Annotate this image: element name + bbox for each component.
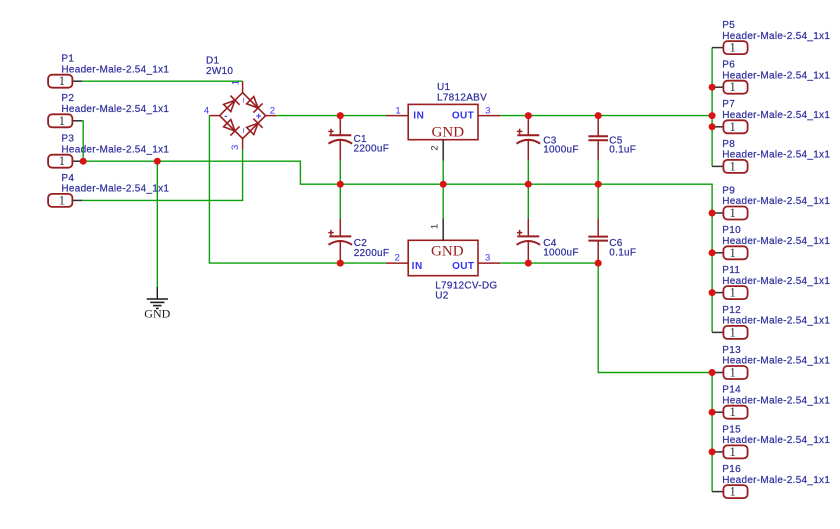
svg-text:1: 1 <box>230 80 241 85</box>
P13 body <box>723 366 747 379</box>
capacitor C1 2200uF <box>328 116 389 161</box>
svg-text:P7: P7 <box>722 99 735 110</box>
svg-text:1: 1 <box>395 106 400 117</box>
C2 bottom lead <box>339 241 341 263</box>
svg-text:IN: IN <box>412 261 423 272</box>
D1 pin 1 stub (top) <box>242 81 244 92</box>
svg-text:3: 3 <box>485 253 490 264</box>
header P9 Header-Male-2.54_1x1 <box>712 185 830 220</box>
svg-text:P10: P10 <box>722 225 741 236</box>
svg-text:P14: P14 <box>722 385 741 396</box>
svg-text:1: 1 <box>729 206 735 220</box>
D1 diode top-left <box>224 96 240 112</box>
junction P14 pin <box>709 409 716 416</box>
P6 pin stub <box>712 86 723 88</box>
junction P6 pin <box>709 84 716 91</box>
U2 pin 2 stub <box>386 262 408 264</box>
header P6 Header-Male-2.54_1x1 <box>712 60 830 95</box>
svg-text:Header-Male-2.54_1x1: Header-Male-2.54_1x1 <box>61 104 169 115</box>
P9 pin stub <box>712 212 723 214</box>
svg-text:P9: P9 <box>722 185 735 196</box>
svg-text:1: 1 <box>729 485 735 499</box>
regulator U2 L7912CV-DG <box>386 219 500 302</box>
ground stub <box>156 287 158 299</box>
C6 plate 1 <box>588 236 608 238</box>
C2 plus sign <box>328 230 333 235</box>
svg-text:U2: U2 <box>435 291 449 302</box>
D1 pin 4 stub (left) <box>209 115 219 117</box>
header P1 Header-Male-2.54_1x1 <box>48 54 169 89</box>
svg-text:L7812ABV: L7812ABV <box>437 92 487 103</box>
wire U1 pin2 to GND rail to U2 pin1 <box>442 161 444 219</box>
C6 bottom lead <box>597 241 599 264</box>
svg-text:1000uF: 1000uF <box>543 145 579 156</box>
D1 diode bottom-left <box>224 120 240 136</box>
svg-text:1: 1 <box>729 80 735 94</box>
svg-text:3: 3 <box>230 145 241 150</box>
P5 pin stub <box>712 47 723 49</box>
P3 pin stub <box>72 160 80 162</box>
C6 plate 2 <box>588 240 608 242</box>
P14 body <box>723 406 747 419</box>
svg-text:P6: P6 <box>722 60 735 71</box>
junction C3 top on +12V rail <box>525 112 532 119</box>
svg-text:1: 1 <box>729 120 735 134</box>
wire P4 to D1 pin3 <box>82 150 243 201</box>
C3 bottom lead <box>527 140 529 160</box>
svg-text:P1: P1 <box>61 54 74 65</box>
P13 pin stub <box>712 372 723 374</box>
P3 body <box>48 155 72 168</box>
header P12 Header-Male-2.54_1x1 <box>712 305 830 340</box>
wire -12V output rail U2 OUT to P13-P16 bus <box>500 263 712 372</box>
wire +12V rail U1 OUT to P5-P8 bus <box>500 115 712 117</box>
junction P2/P3 net <box>80 158 87 165</box>
P1 body <box>48 75 72 88</box>
junction C2 bottom on -12V in rail <box>337 260 344 267</box>
P1 pin stub <box>72 80 82 82</box>
svg-text:+: + <box>256 111 262 122</box>
svg-text:Header-Male-2.54_1x1: Header-Male-2.54_1x1 <box>722 150 830 161</box>
svg-text:Header-Male-2.54_1x1: Header-Male-2.54_1x1 <box>722 70 830 81</box>
U1 body <box>408 104 478 139</box>
P8 pin stub <box>712 165 723 167</box>
svg-text:Header-Male-2.54_1x1: Header-Male-2.54_1x1 <box>722 395 830 406</box>
U1 pin 3 stub <box>478 115 500 117</box>
svg-text:1: 1 <box>59 114 65 128</box>
C4 bottom lead <box>527 241 529 263</box>
GROUND SYMBOL <box>147 287 168 308</box>
ground bar 4 <box>156 307 159 309</box>
U1 pin 1 stub <box>386 115 408 117</box>
P7 pin stub <box>712 126 723 128</box>
junction P7 pin <box>709 123 716 130</box>
D1 diamond outline <box>220 93 266 139</box>
header P4 Header-Male-2.54_1x1 <box>48 173 169 208</box>
svg-text:0.1uF: 0.1uF <box>609 248 636 259</box>
junction C6 bottom on -12V out rail <box>595 260 602 267</box>
D1 pin 2 stub (right) <box>266 115 277 117</box>
header P11 Header-Male-2.54_1x1 <box>712 265 830 300</box>
svg-text:Header-Male-2.54_1x1: Header-Male-2.54_1x1 <box>722 475 830 486</box>
C1 bottom lead <box>339 140 341 160</box>
C1 curved plate <box>329 140 353 144</box>
svg-text:P11: P11 <box>722 265 740 276</box>
C2 flat plate <box>329 235 351 237</box>
P5 body <box>723 41 747 54</box>
header P16 Header-Male-2.54_1x1 <box>712 464 830 499</box>
svg-text:~: ~ <box>238 97 249 103</box>
svg-text:P4: P4 <box>61 173 74 184</box>
U2 pin 3 stub <box>478 262 500 264</box>
junction +12V rail into P5-P8 bus <box>709 112 716 119</box>
capacitor C4 1000uF <box>517 218 579 263</box>
svg-text:1: 1 <box>729 366 735 380</box>
D1 diode bottom-right <box>247 119 263 135</box>
wire C5 bottom to GND rail <box>597 160 599 184</box>
P7 body <box>723 120 747 133</box>
svg-text:1: 1 <box>429 224 440 229</box>
wire C1 bottom to GND rail <box>339 160 341 184</box>
capacitor C2 2200uF <box>328 218 389 263</box>
svg-text:P16: P16 <box>722 464 741 475</box>
svg-text:1: 1 <box>729 286 735 300</box>
svg-text:2: 2 <box>395 253 400 264</box>
P9 body <box>723 207 747 220</box>
ground bar 2 <box>150 301 164 303</box>
svg-text:Header-Male-2.54_1x1: Header-Male-2.54_1x1 <box>722 110 830 121</box>
C1 top lead <box>339 116 341 136</box>
svg-text:GND: GND <box>432 124 465 140</box>
svg-text:-: - <box>224 111 227 122</box>
header P8 Header-Male-2.54_1x1 <box>712 139 830 174</box>
P12 pin stub <box>712 331 723 333</box>
svg-text:1: 1 <box>729 405 735 419</box>
P12 body <box>723 326 747 339</box>
svg-text:1: 1 <box>729 246 735 260</box>
P4 pin stub <box>72 199 82 201</box>
wire C3 bottom to GND rail <box>527 160 529 184</box>
svg-text:Header-Male-2.54_1x1: Header-Male-2.54_1x1 <box>722 236 830 247</box>
P11 body <box>723 286 747 299</box>
C4 top lead <box>527 218 529 236</box>
junction C3/C4 midpoint on GND rail <box>525 181 532 188</box>
C4 curved plate <box>517 241 541 245</box>
svg-text:1: 1 <box>59 74 65 88</box>
wire P1 to D1 pin1 <box>82 80 243 82</box>
C1 plus sign <box>328 129 333 134</box>
P2 pin stub <box>72 120 82 122</box>
P10 pin stub <box>712 252 723 254</box>
junction U1 pin2 on GND rail <box>440 181 447 188</box>
capacitor C6 0.1uF <box>588 218 636 263</box>
C5 bottom lead <box>597 140 599 160</box>
C3 top lead <box>527 116 529 136</box>
P6 body <box>723 81 747 94</box>
svg-text:P8: P8 <box>722 139 735 150</box>
svg-text:1000uF: 1000uF <box>543 248 579 259</box>
svg-text:~: ~ <box>238 127 249 133</box>
svg-text:2200uF: 2200uF <box>354 143 390 154</box>
P15 pin stub <box>712 451 723 453</box>
C4 flat plate <box>517 235 539 237</box>
svg-text:P15: P15 <box>722 424 741 435</box>
P16 body <box>723 485 747 498</box>
svg-text:2200uF: 2200uF <box>354 248 390 259</box>
capacitor C5 0.1uF <box>588 116 636 161</box>
svg-text:4: 4 <box>204 106 209 117</box>
P11 pin stub <box>712 292 723 294</box>
D1 diode top-right <box>247 97 263 113</box>
svg-text:3: 3 <box>485 106 490 117</box>
junction P11 pin <box>709 289 716 296</box>
svg-text:1: 1 <box>729 159 735 173</box>
P8 body <box>723 160 747 173</box>
junction P13 pin <box>709 369 716 376</box>
svg-text:Header-Male-2.54_1x1: Header-Male-2.54_1x1 <box>722 435 830 446</box>
U2 body <box>408 240 478 275</box>
C6 top lead <box>597 218 599 236</box>
svg-text:Header-Male-2.54_1x1: Header-Male-2.54_1x1 <box>722 356 830 367</box>
svg-text:OUT: OUT <box>452 110 474 121</box>
svg-text:Header-Male-2.54_1x1: Header-Male-2.54_1x1 <box>722 31 830 42</box>
header P7 Header-Male-2.54_1x1 <box>712 99 830 134</box>
svg-text:P5: P5 <box>722 20 735 31</box>
svg-text:P12: P12 <box>722 305 741 316</box>
C3 flat plate <box>517 134 539 136</box>
header P2 Header-Male-2.54_1x1 <box>48 93 169 128</box>
C4 plus sign <box>517 230 522 235</box>
U1 pin 2 stub <box>442 140 444 161</box>
D1 pin 3 stub (bottom) <box>242 139 244 150</box>
wire GND rail to C4 top <box>527 184 529 218</box>
svg-text:2: 2 <box>429 145 440 150</box>
ground bar 3 <box>153 305 161 307</box>
svg-text:P2: P2 <box>61 93 74 104</box>
wire P2 down to P3 net <box>82 121 83 161</box>
C5 plate 1 <box>588 135 608 137</box>
C1 flat plate <box>329 134 351 136</box>
svg-text:P13: P13 <box>722 345 741 356</box>
C3 curved plate <box>517 140 541 144</box>
svg-text:Header-Male-2.54_1x1: Header-Male-2.54_1x1 <box>61 64 169 75</box>
wire GND rail from P3 to right bus <box>79 161 712 332</box>
junction C1 top on +12V in rail <box>337 112 344 119</box>
svg-text:GND: GND <box>431 244 464 260</box>
P15 body <box>723 445 747 458</box>
C2 top lead <box>339 218 341 236</box>
C3 plus sign <box>517 129 522 134</box>
svg-text:P3: P3 <box>61 134 74 145</box>
svg-text:1: 1 <box>729 445 735 459</box>
wire P13-P16 vertical bus <box>711 373 713 492</box>
svg-text:1: 1 <box>729 325 735 339</box>
C2 curved plate <box>329 241 353 245</box>
C5 plate 2 <box>588 139 608 141</box>
wire P5-P8 vertical bus <box>711 48 713 167</box>
header P3 Header-Male-2.54_1x1 <box>48 134 169 169</box>
junction C4 bottom on -12V out rail <box>525 260 532 267</box>
wire GND tap down to ground symbol <box>156 161 158 287</box>
svg-text:2: 2 <box>270 106 275 117</box>
header P15 Header-Male-2.54_1x1 <box>712 424 830 459</box>
junction P15 pin <box>709 448 716 455</box>
svg-text:Header-Male-2.54_1x1: Header-Male-2.54_1x1 <box>722 276 830 287</box>
wire GND rail to C2 top <box>339 184 341 218</box>
junction P9 pin <box>709 210 716 217</box>
svg-text:OUT: OUT <box>452 261 474 272</box>
junction GND tap <box>154 158 161 165</box>
U2 pin 1 stub <box>442 219 444 241</box>
svg-text:1: 1 <box>729 41 735 55</box>
junction P10 pin <box>709 249 716 256</box>
header P14 Header-Male-2.54_1x1 <box>712 385 830 420</box>
P2 body <box>48 114 72 127</box>
header P10 Header-Male-2.54_1x1 <box>712 225 830 260</box>
svg-text:1: 1 <box>59 154 65 168</box>
svg-text:1: 1 <box>59 193 65 207</box>
svg-text:IN: IN <box>413 110 424 121</box>
svg-text:Header-Male-2.54_1x1: Header-Male-2.54_1x1 <box>722 316 830 327</box>
wire D1 pin2 to U1 IN <box>276 115 386 117</box>
P4 body <box>48 194 72 207</box>
wire D1 pin4 down to -12V input rail <box>209 116 386 264</box>
svg-text:Header-Male-2.54_1x1: Header-Male-2.54_1x1 <box>61 144 169 155</box>
header P13 Header-Male-2.54_1x1 <box>712 345 830 380</box>
svg-text:Header-Male-2.54_1x1: Header-Male-2.54_1x1 <box>722 196 830 207</box>
regulator U1 L7812ABV <box>386 82 500 161</box>
junction C5 top on +12V rail <box>595 112 602 119</box>
bridge rectifier D1 <box>204 56 277 150</box>
junction C1/C2 midpoint on GND rail <box>337 181 344 188</box>
ground bar 1 <box>147 298 168 300</box>
C5 top lead <box>597 116 599 137</box>
P16 pin stub <box>712 491 723 493</box>
capacitor C3 1000uF <box>517 116 579 161</box>
svg-text:2W10: 2W10 <box>206 66 233 77</box>
P10 body <box>723 246 747 259</box>
header P5 Header-Male-2.54_1x1 <box>712 20 830 55</box>
junction C5/C6 midpoint on GND rail <box>595 181 602 188</box>
svg-text:GND: GND <box>144 306 170 320</box>
svg-text:Header-Male-2.54_1x1: Header-Male-2.54_1x1 <box>61 184 169 195</box>
P14 pin stub <box>712 411 723 413</box>
wire GND rail to C6 top <box>597 184 599 218</box>
svg-text:0.1uF: 0.1uF <box>609 145 636 156</box>
